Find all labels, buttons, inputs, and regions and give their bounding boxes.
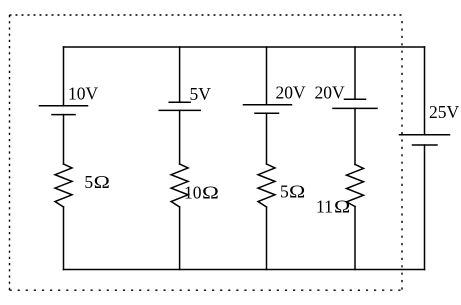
battery V2 5V plates: [159, 102, 200, 110]
wire branch1 mid: [63, 115, 65, 164]
svg-text:20V: 20V: [276, 83, 307, 103]
wire branch5 top: [424, 47, 426, 135]
wire branch5 bottom: [424, 145, 426, 270]
wire branch1 bottom: [63, 207, 65, 270]
wire branch1 top: [63, 47, 65, 106]
battery V5 25V plates: [400, 135, 450, 145]
svg-text:25V: 25V: [429, 102, 460, 122]
wire branch2 bottom: [179, 207, 181, 270]
wire bottom rail: [64, 269, 425, 271]
resistor R1 5ohm zigzag: [55, 164, 72, 207]
battery V1 10V plates: [40, 106, 88, 115]
svg-text:Ω: Ω: [289, 182, 305, 201]
wire branch2 mid: [179, 110, 181, 164]
wire branch2 top: [179, 47, 181, 102]
svg-text:20V: 20V: [315, 83, 346, 103]
svg-text:5V: 5V: [190, 84, 212, 104]
resistor R4 11ohm zigzag: [347, 164, 364, 206]
wire top rail: [64, 46, 425, 48]
svg-text:11: 11: [316, 196, 333, 216]
wire branch3 top: [266, 47, 268, 105]
resistor R2 10ohm zigzag: [171, 164, 188, 207]
svg-text:5: 5: [280, 181, 289, 201]
svg-text:Ω: Ω: [94, 173, 110, 192]
battery V3 20V plates: [244, 105, 292, 113]
wire branch3 bottom: [266, 207, 268, 270]
svg-text:5: 5: [84, 172, 93, 192]
battery V4 20V plates: [333, 99, 377, 108]
svg-text:Ω: Ω: [202, 184, 219, 203]
wire branch3 mid: [266, 113, 268, 164]
resistor R3 5ohm zigzag: [258, 164, 275, 207]
wire branch4 mid: [354, 108, 356, 164]
wire branch4 top: [354, 47, 356, 99]
dashed boundary box: [10, 15, 403, 290]
svg-text:10: 10: [184, 182, 202, 202]
svg-text:Ω: Ω: [334, 197, 350, 216]
svg-text:10V: 10V: [68, 84, 99, 104]
wire branch4 bottom: [354, 207, 356, 270]
